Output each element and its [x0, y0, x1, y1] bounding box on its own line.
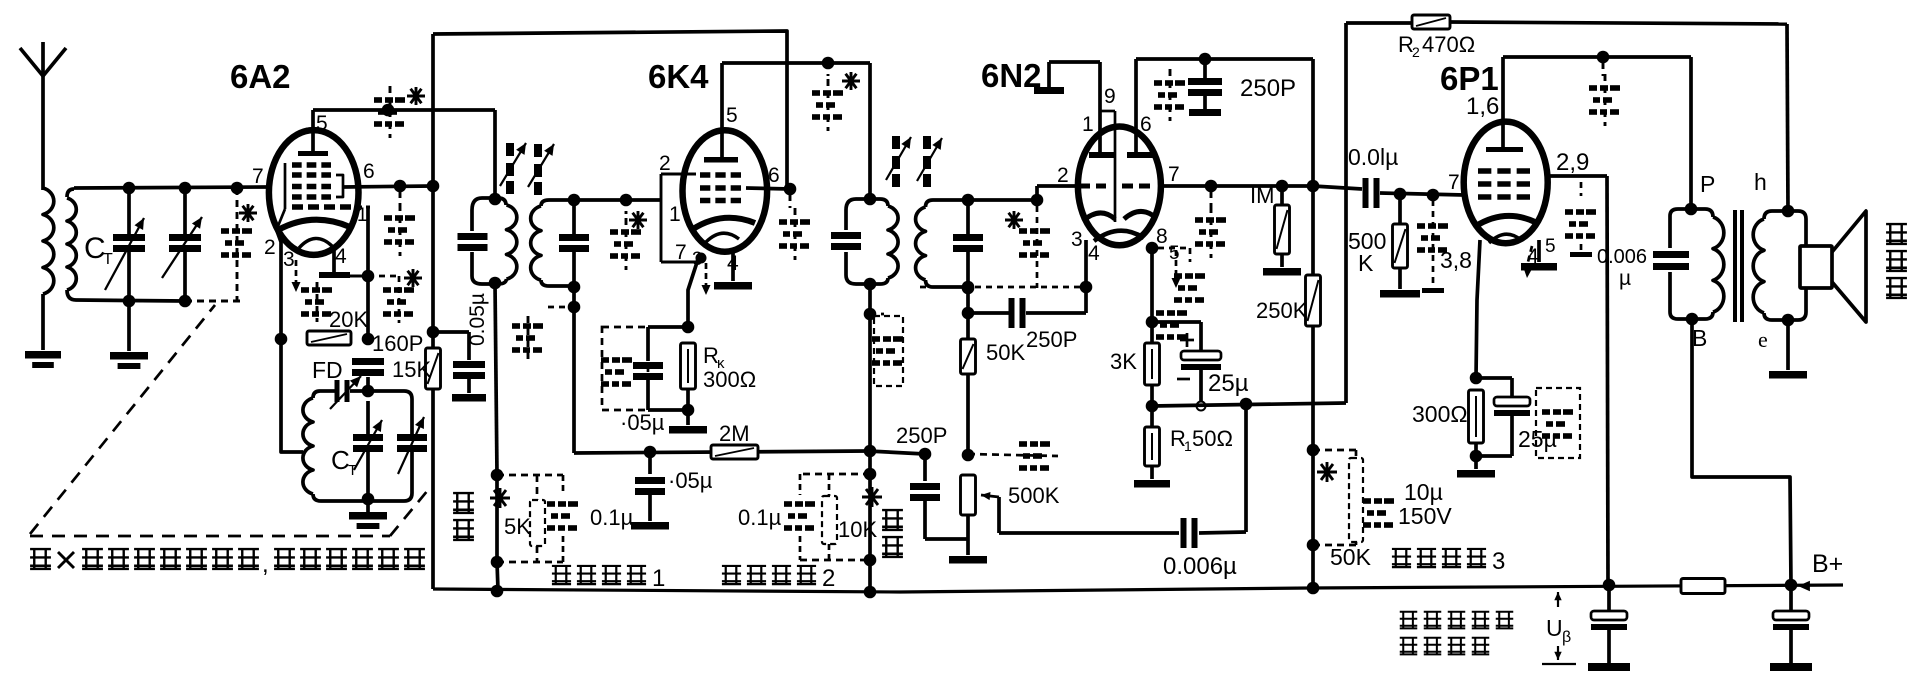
- pin 1 label: [1082, 113, 1094, 136]
- svg-text:6: 6: [1140, 113, 1152, 136]
- dashed trimmer (input, starred): [185, 182, 257, 301]
- dashed trimmer (grid, starred): [610, 200, 647, 270]
- wire 6P1 screen: [1548, 176, 1608, 585]
- svg-text:1,6: 1,6: [1466, 93, 1499, 120]
- node tank2 bottom: [568, 281, 581, 453]
- wire grid3 to osc: [356, 207, 374, 345]
- svg-text:6K4: 6K4: [648, 58, 709, 95]
- svg-text:2M: 2M: [719, 421, 750, 446]
- variable capacitor CT-b: [162, 188, 202, 307]
- label decoupling3: [1392, 548, 1505, 575]
- svg-text:,: ,: [262, 551, 269, 578]
- resistor R2 470: [1398, 15, 1475, 60]
- break mark (dec2, starred): [862, 487, 882, 507]
- pin 2 label: [1057, 164, 1069, 187]
- wire plate riser to IFT2: [868, 63, 872, 198]
- node tank4 top: [962, 194, 975, 207]
- svg-text:250K: 250K: [1256, 298, 1308, 323]
- antenna: [20, 42, 66, 190]
- label speaker CJK: [1886, 224, 1907, 298]
- capacitor 25u (6P1): [1476, 378, 1557, 456]
- 6N2 grids (dash rows): [1080, 184, 1150, 189]
- dash AVC right: [968, 441, 1058, 471]
- resistor 50K: [961, 288, 1026, 374]
- dashed trimmer (screen): [1565, 182, 1596, 257]
- 6K4 grid bracket: [661, 174, 700, 262]
- svg-text:3: 3: [1071, 228, 1083, 251]
- svg-text:4: 4: [1088, 242, 1100, 265]
- node .05u-2: [644, 446, 657, 459]
- wire 15K to rail: [431, 389, 435, 589]
- svg-text:T: T: [103, 251, 113, 268]
- tube 6K4 envelope: [683, 130, 768, 251]
- svg-text:0.006: 0.006: [1597, 246, 1647, 268]
- resistor 2M: [711, 421, 758, 459]
- break mark (dec3, starred): [1317, 462, 1337, 482]
- OT primary body: [1670, 209, 1724, 319]
- speaker: [1800, 211, 1866, 322]
- rail B-: [433, 579, 1843, 599]
- ground (osc): [349, 501, 387, 529]
- svg-text:6: 6: [768, 164, 780, 187]
- 6P1 grids (dash rows): [1478, 168, 1530, 200]
- node IFT1 bottom: [489, 277, 502, 290]
- pin 5 label: [726, 104, 738, 127]
- dashed box (cathode cap): [601, 327, 648, 410]
- svg-text:P: P: [1700, 171, 1715, 197]
- label 1,6: [1466, 93, 1499, 120]
- label 2,9: [1556, 149, 1589, 176]
- resistor 500K (grid leak): [1348, 188, 1420, 298]
- IFT1 tank1 capacitor: [458, 233, 488, 251]
- svg-text:5: 5: [316, 112, 328, 135]
- resistor 1M: [1250, 183, 1301, 276]
- svg-text:6A2: 6A2: [230, 58, 291, 95]
- dashed trimmer (pin8): [1146, 242, 1205, 340]
- label Rk: [703, 343, 756, 392]
- svg-text:2: 2: [822, 565, 835, 592]
- dashed trimmer (3,8): [1417, 189, 1472, 293]
- resistor Rk 300: [681, 343, 696, 416]
- 6N2 plate right: [1127, 59, 1153, 158]
- node AVC-riser: [864, 445, 877, 458]
- pin 7 label: [675, 241, 687, 264]
- svg-text:10µ: 10µ: [1404, 479, 1443, 505]
- wire 6N2 grid1: [1031, 186, 1078, 206]
- wire top B+ loop: [433, 31, 787, 189]
- node h: [1754, 169, 1794, 217]
- node cathode2 bottom: [1146, 400, 1206, 413]
- svg-text:5K: 5K: [504, 514, 531, 539]
- pin 7 label: [1448, 171, 1460, 194]
- svg-text:15K: 15K: [392, 357, 431, 382]
- filter capacitor C1: [1588, 585, 1630, 671]
- IFT2 tank4 body: [916, 200, 1037, 287]
- svg-text:h: h: [1754, 169, 1767, 195]
- wire pin4: [319, 250, 374, 282]
- label 6N2: [981, 57, 1042, 94]
- wire pin2 down: [275, 231, 303, 452]
- svg-text:2: 2: [264, 236, 276, 259]
- svg-text:K: K: [1358, 250, 1374, 276]
- node plate2: [1307, 180, 1320, 193]
- 6A2 grids (dash rows): [292, 162, 351, 210]
- decoupling3 junctions: [1307, 444, 1320, 552]
- potentiometer 500K: [949, 475, 1060, 564]
- svg-text:·05µ: ·05µ: [620, 410, 665, 435]
- svg-text:2: 2: [1412, 44, 1420, 60]
- pin 6 label: [768, 164, 780, 187]
- node P: [1685, 171, 1716, 215]
- 6N2 shield divider: [1100, 85, 1116, 222]
- svg-text:50Ω: 50Ω: [1192, 426, 1233, 451]
- svg-text:FD: FD: [312, 357, 343, 383]
- pin 4 label: [1088, 242, 1100, 265]
- filter capacitor C2: [1770, 585, 1812, 671]
- svg-text:50K: 50K: [1330, 544, 1372, 570]
- pin 3 label: [1071, 228, 1083, 251]
- node B: [1686, 313, 1708, 351]
- 6K4 anode plate bar: [704, 63, 738, 163]
- antenna coil L1: [43, 188, 54, 350]
- wire B to rail: [1692, 319, 1791, 585]
- pin 7 label: [1168, 163, 1180, 186]
- pin 1 label: [669, 203, 681, 226]
- resistor 250K: [1256, 59, 1321, 588]
- svg-text:e: e: [1758, 327, 1768, 352]
- capacitor .05u (cathode): [633, 327, 688, 410]
- 6A2 anode plate bar: [298, 110, 328, 156]
- svg-text:β: β: [1562, 629, 1571, 646]
- 6A2 cathode arcs: [278, 220, 350, 248]
- capacitor 25u (6N2): [1152, 322, 1249, 401]
- svg-text:0.1µ: 0.1µ: [738, 505, 782, 530]
- 6N2 plate left: [1089, 62, 1115, 158]
- wire 6N2 grid2 row: [1161, 180, 1313, 193]
- wire feedback line: [1152, 398, 1346, 411]
- IFT2 tank4 capacitor: [953, 200, 983, 287]
- svg-text:9: 9: [1104, 85, 1116, 108]
- pin 4 label: [727, 252, 739, 275]
- dashed resistor 50K (dec3): [1313, 450, 1372, 570]
- node grid input: [620, 194, 633, 207]
- capacitor 0.05u (6A2): [433, 293, 489, 401]
- label U-beta: [1542, 592, 1576, 664]
- grounded bar (pin1 feed): [1034, 62, 1100, 94]
- capacitor 250P (AVC): [896, 423, 968, 539]
- IFT1 tank1 body: [472, 198, 517, 284]
- resistor R1 50: [1134, 406, 1233, 488]
- wire feedback riser: [1346, 23, 1412, 403]
- tuning arrows IFT2: [886, 136, 942, 187]
- svg-text:5: 5: [1169, 243, 1180, 264]
- tube 6N2 envelope: [1078, 126, 1161, 245]
- pin 3 label: [692, 249, 703, 270]
- variable capacitor CT-a: [105, 188, 145, 301]
- wire 6P1 cathode: [1470, 240, 1483, 384]
- svg-text:8: 8: [1156, 225, 1168, 248]
- wire feedback top: [1450, 22, 1788, 211]
- ground pin5 (6P1): [1521, 240, 1557, 271]
- dashed trimmer (pin6): [384, 192, 415, 256]
- gang dashed diagonal: [30, 305, 428, 536]
- heater arrow pin3 (6K4): [702, 263, 711, 295]
- wire 6N2 cathode1: [1026, 240, 1086, 313]
- svg-text:250P: 250P: [896, 423, 947, 448]
- dashed capacitor 0.1u (dec1): [547, 475, 634, 562]
- svg-text:300Ω: 300Ω: [703, 367, 756, 392]
- ground (Rk): [669, 410, 707, 434]
- svg-text:5: 5: [726, 104, 738, 127]
- svg-text:7: 7: [1448, 171, 1460, 194]
- svg-text:3: 3: [283, 248, 295, 271]
- svg-text:3: 3: [1492, 548, 1505, 575]
- label B+: [1798, 550, 1843, 591]
- decoupling2 junctions: [864, 468, 877, 567]
- pin 2 label: [659, 152, 671, 175]
- 6K4 cathode arcs: [693, 218, 755, 242]
- label 10u 150V: [1398, 479, 1452, 529]
- heater arrow pin4 (6P1): [1523, 246, 1532, 278]
- IFT1 tank2 capacitor: [559, 200, 589, 286]
- osc tank right side: [368, 391, 427, 501]
- label broken-open 1: [453, 493, 474, 540]
- svg-text:250P: 250P: [1240, 75, 1296, 102]
- svg-text:6N2: 6N2: [981, 57, 1042, 94]
- pin 2 label: [264, 236, 276, 259]
- svg-text:0.006µ: 0.006µ: [1163, 553, 1237, 580]
- wire 6N2 plate top: [1136, 53, 1313, 66]
- dashed trimmer box (tank3): [864, 308, 903, 386]
- node tank top 1: [123, 182, 136, 195]
- wire 6P1 plate: [1503, 51, 1691, 209]
- svg-text:6P1: 6P1: [1440, 60, 1499, 97]
- capacitor 250P (coupling): [962, 298, 1078, 352]
- svg-text:IM: IM: [1250, 183, 1274, 208]
- svg-text:7: 7: [675, 241, 687, 264]
- dashed trimmer (grid1, starred): [1005, 206, 1050, 288]
- note feedback CJK: [1400, 612, 1514, 655]
- OT core: [1735, 210, 1742, 322]
- svg-text:U: U: [1546, 615, 1563, 641]
- tuning arrows IFT1: [500, 143, 554, 195]
- svg-text:20K: 20K: [329, 307, 368, 332]
- resistor 300 (cathode): [1412, 390, 1495, 478]
- label broken-open 2: [882, 510, 903, 557]
- svg-text:250P: 250P: [1026, 327, 1077, 352]
- svg-text:0.05µ: 0.05µ: [466, 293, 489, 346]
- label 6P1: [1440, 60, 1499, 97]
- node tank2 top: [568, 194, 581, 207]
- dashed resistor 10K (dec2): [822, 474, 877, 560]
- svg-text:3,8: 3,8: [1440, 247, 1472, 273]
- wire 6K4 pin6: [746, 183, 796, 196]
- coil L2: [67, 198, 185, 301]
- svg-text:5: 5: [1545, 236, 1556, 257]
- svg-text:160P: 160P: [372, 331, 423, 356]
- svg-text:7: 7: [1168, 163, 1180, 186]
- svg-text:1: 1: [652, 565, 665, 592]
- svg-text:470Ω: 470Ω: [1422, 32, 1475, 57]
- svg-text:1: 1: [1184, 438, 1192, 454]
- svg-text:25µ: 25µ: [1208, 370, 1249, 397]
- capacitor .05u-2: [631, 452, 713, 530]
- svg-text:µ: µ: [1619, 267, 1631, 290]
- dashed trimmer (plate, starred): [812, 63, 860, 131]
- note test-only CJK: [30, 549, 425, 578]
- heater arrow pin5 (6N2): [1172, 250, 1181, 288]
- decoupling1 junction bottom: [491, 475, 504, 590]
- svg-text:C: C: [331, 445, 350, 475]
- svg-text:6: 6: [363, 160, 375, 183]
- ground pin4 (6K4): [714, 250, 752, 290]
- node plate wire: [382, 104, 395, 117]
- IFT2 tank3 capacitor: [831, 232, 861, 250]
- variable capacitor CT osc: [331, 391, 383, 498]
- node IFT1 top: [489, 110, 502, 205]
- node 0.05 junction: [427, 326, 440, 339]
- 6A2 grid box right: [336, 175, 343, 197]
- osc tank bottom: [321, 493, 404, 506]
- dash link (cathode gang): [920, 281, 1092, 294]
- svg-text:1: 1: [669, 203, 681, 226]
- pin 6 label: [1140, 113, 1152, 136]
- wire secondary top: [67, 187, 268, 197]
- wire 6A2 pin6: [343, 180, 439, 193]
- dashed resistor 5K: [497, 475, 563, 562]
- pin 5 label: [1169, 243, 1180, 264]
- capacitor 0.006u (OT): [1597, 246, 1689, 290]
- dashed trimmer (grid2): [1195, 192, 1226, 258]
- tube 6P1 envelope: [1464, 122, 1548, 244]
- svg-text:10K: 10K: [838, 517, 877, 542]
- svg-text:1: 1: [1082, 113, 1094, 136]
- label decoupling2: [722, 565, 835, 592]
- resistor 20K: [307, 307, 368, 345]
- pin 7 label: [252, 165, 264, 188]
- pin 5 label: [316, 112, 328, 135]
- svg-text:300Ω: 300Ω: [1412, 401, 1468, 427]
- IFT2 tank3 body: [846, 199, 898, 284]
- 6P1 anode plate bar: [1486, 57, 1523, 152]
- ground (speaker): [1769, 320, 1807, 379]
- wire 6A2 plate to IFT1: [313, 108, 495, 112]
- svg-text:0.1µ: 0.1µ: [590, 505, 634, 530]
- decoupling1 junction top: [491, 469, 504, 482]
- wire cathode2: [1146, 248, 1159, 343]
- IFT1 tank2 body: [531, 200, 660, 286]
- svg-text:150V: 150V: [1398, 503, 1452, 529]
- capacitor 160P: [352, 331, 423, 376]
- capacitor 0.01u: [1348, 144, 1398, 208]
- svg-text:2: 2: [1057, 164, 1069, 187]
- 6P1 cathode arcs: [1476, 216, 1535, 243]
- resistor 3K: [1110, 343, 1160, 406]
- svg-text:7: 7: [252, 165, 264, 188]
- heater arrow pin3: [292, 260, 301, 292]
- dashed capacitor 0.1u (dec2): [738, 474, 870, 560]
- resistor 15K: [392, 34, 441, 389]
- break mark (dec1, starred): [490, 488, 510, 508]
- ground (antenna): [25, 351, 61, 368]
- node osc top: [362, 377, 375, 397]
- wire 6K4 cathode: [682, 253, 707, 334]
- dashed trimmer (tank2): [512, 307, 574, 360]
- 6K4 grids (dash rows): [700, 172, 741, 203]
- dashed trimmer (starred, osc): [368, 269, 422, 323]
- dashed trimmer (6A2 plate, starred): [374, 86, 425, 138]
- svg-text:500K: 500K: [1008, 483, 1060, 508]
- dashed trimmer (6N2 top): [1154, 69, 1185, 121]
- label decoupling1: [552, 565, 665, 592]
- node tank3 top: [864, 193, 877, 206]
- svg-text:B+: B+: [1812, 550, 1843, 578]
- rail filter resistor: [1681, 579, 1725, 594]
- osc coil: [303, 391, 321, 501]
- wire grid 6P1: [1313, 186, 1464, 195]
- wire AVC: [574, 451, 868, 453]
- svg-text:3K: 3K: [1110, 349, 1137, 374]
- dashed trimmer (dec3): [1363, 498, 1394, 528]
- 6N2 cathode arcs: [1083, 211, 1155, 241]
- dashed trimmer (pin6): [779, 195, 810, 260]
- pin 4 label: [335, 245, 347, 268]
- tube 6A2 envelope: [269, 130, 359, 255]
- dashed trimmer (6P1 plate): [1589, 63, 1620, 126]
- padder capacitor FD: [312, 357, 368, 409]
- node tank4 bottom: [962, 282, 975, 295]
- pin 3 label: [283, 248, 295, 271]
- 6A2 grid bracket left: [276, 163, 285, 231]
- ground (input tank): [110, 295, 148, 369]
- svg-text:4: 4: [335, 245, 347, 268]
- svg-text:25µ: 25µ: [1518, 426, 1557, 452]
- wire 50K to pot: [962, 374, 975, 461]
- dashed box (cathode 6P1): [1536, 388, 1580, 458]
- node tank top 2: [179, 182, 192, 195]
- svg-text:0.0lµ: 0.0lµ: [1348, 144, 1398, 170]
- svg-text:B: B: [1692, 325, 1707, 351]
- pin 5 label: [1545, 236, 1556, 257]
- label 6K4: [648, 58, 709, 95]
- capacitor 250P (plate): [1188, 59, 1296, 116]
- label 1 (osc node): [0, 0, 1, 1]
- volume wire 0.006u: [999, 406, 1246, 580]
- speaker secondary body: [1753, 211, 1806, 320]
- pin 8 label: [1156, 225, 1168, 248]
- node e: [1758, 314, 1794, 352]
- node tank3 bottom: [864, 278, 877, 592]
- wire IFT1 bottom to decoupling1: [495, 283, 497, 475]
- svg-text:2: 2: [659, 152, 671, 175]
- svg-text:·05µ: ·05µ: [668, 468, 713, 493]
- pin 4 label: [1527, 245, 1539, 268]
- svg-text:T: T: [348, 462, 357, 479]
- pin 6 label: [363, 160, 375, 183]
- wire 6K4 plate feed: [722, 57, 870, 70]
- svg-text:2,9: 2,9: [1556, 149, 1589, 176]
- svg-text:50K: 50K: [986, 340, 1025, 365]
- label .05u: [620, 410, 665, 435]
- pin 1 label: [357, 205, 368, 226]
- wire AVC mid: [868, 451, 925, 454]
- dashed trimmer (pin3): [301, 282, 332, 322]
- label 6A2: [230, 58, 291, 95]
- label CT: [84, 232, 113, 268]
